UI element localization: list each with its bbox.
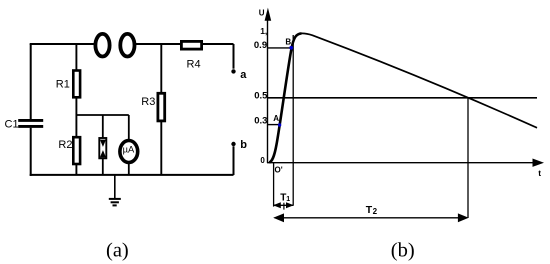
svg-text:(a): (a) bbox=[106, 239, 129, 261]
svg-text:R2: R2 bbox=[58, 139, 72, 151]
svg-text:R1: R1 bbox=[56, 79, 70, 91]
svg-text:A: A bbox=[273, 114, 279, 123]
svg-text:0.9: 0.9 bbox=[254, 40, 267, 51]
svg-text:O': O' bbox=[275, 165, 283, 174]
svg-text:t: t bbox=[538, 168, 541, 178]
svg-text:U: U bbox=[259, 8, 265, 17]
svg-text:1: 1 bbox=[286, 196, 290, 203]
svg-text:b: b bbox=[240, 139, 247, 151]
svg-text:(b): (b) bbox=[391, 239, 415, 261]
svg-text:µA: µA bbox=[123, 144, 135, 154]
svg-text:R3: R3 bbox=[141, 96, 155, 108]
svg-text:C1: C1 bbox=[5, 119, 19, 131]
svg-text:0.3: 0.3 bbox=[254, 116, 267, 127]
svg-text:0.5: 0.5 bbox=[254, 90, 268, 101]
svg-text:a: a bbox=[240, 69, 247, 81]
svg-text:2: 2 bbox=[373, 207, 378, 216]
svg-text:R4: R4 bbox=[187, 59, 201, 71]
svg-text:0: 0 bbox=[260, 156, 265, 165]
svg-text:B: B bbox=[285, 37, 291, 46]
svg-text:1,: 1, bbox=[260, 26, 267, 36]
